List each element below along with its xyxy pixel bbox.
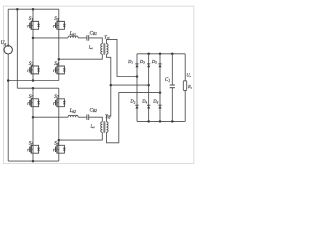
node: bottom bus / leg2 bbox=[147, 120, 150, 123]
node: bottom bus / leg3 bbox=[159, 120, 162, 123]
node: leg2 return tap (bridge2) bbox=[58, 139, 61, 142]
svg-text:S5: S5 bbox=[29, 94, 34, 100]
svg-text:S6: S6 bbox=[29, 141, 34, 147]
svg-text:D6: D6 bbox=[152, 99, 158, 105]
svg-text:S3: S3 bbox=[54, 16, 59, 22]
diode D6 bbox=[158, 105, 161, 108]
wire: output cap leg top bbox=[171, 54, 173, 85]
wire: bridge1 negative rail bbox=[8, 80, 59, 82]
svg-text:Tr2: Tr2 bbox=[105, 114, 111, 120]
resistor Ro (load) bbox=[183, 81, 186, 91]
transformer Tr1 secondary winding bbox=[107, 44, 109, 55]
capacitor C1 bbox=[170, 85, 175, 88]
transistor S6 bbox=[28, 145, 40, 153]
wire: bridge2 positive rail bbox=[17, 87, 59, 89]
capacitor CB2 bbox=[87, 114, 89, 120]
wire: load leg bottom bbox=[184, 90, 186, 121]
transformer Tr2 secondary winding bbox=[107, 122, 109, 133]
wire: parallel feed rail bbox=[16, 9, 18, 88]
node: negative rail / source rail bbox=[7, 79, 10, 82]
wire: bridge2 tap to inductor bbox=[33, 116, 68, 118]
wire: rectifier wire2 bbox=[111, 84, 149, 86]
transformer Tr2 primary winding bbox=[101, 122, 103, 133]
wire: output cap leg bottom bbox=[171, 88, 173, 122]
wire: load leg top bbox=[184, 54, 186, 81]
transistor S5 bbox=[28, 99, 40, 107]
node: top bus / output cap bbox=[171, 53, 174, 56]
wire: rectifier leg3 bbox=[159, 54, 161, 122]
node: leg2 return tap (bridge1) bbox=[58, 58, 61, 61]
wire: middle rail to Tr2 secondary top bbox=[107, 85, 111, 122]
svg-text:S8: S8 bbox=[54, 141, 59, 147]
inductor Lk1 bbox=[68, 36, 78, 38]
wire: rectifier top bus bbox=[137, 53, 185, 55]
diode D5 bbox=[158, 64, 161, 67]
node: top rail / parallel rail bbox=[16, 8, 19, 11]
wire: source negative rail bbox=[7, 54, 9, 161]
wire: CB1 to transformer Tr1 primary top bbox=[89, 38, 103, 44]
transformer Tr1 primary winding bbox=[101, 44, 103, 55]
wire: inductor to capacitor CB2 bbox=[78, 116, 87, 118]
node: wire1 / rectifier leg1 bbox=[136, 75, 139, 78]
transistor S7 bbox=[54, 99, 66, 107]
node: top bus / leg2 bbox=[147, 53, 150, 56]
svg-text:D1: D1 bbox=[127, 59, 133, 65]
wire: CB2 to transformer Tr2 primary top bbox=[89, 117, 103, 122]
transformer Tr1 core bbox=[104, 43, 105, 54]
node: wire2 / rectifier leg2 bbox=[147, 84, 150, 87]
source Ug bbox=[4, 45, 12, 55]
node: bridge2 positive rail / leg1 bbox=[32, 87, 35, 90]
wire: rectifier leg1 bbox=[136, 54, 138, 122]
diode D3 bbox=[147, 64, 150, 67]
svg-text:C1: C1 bbox=[165, 77, 170, 83]
svg-text:D4: D4 bbox=[141, 99, 147, 105]
svg-text:S7: S7 bbox=[54, 94, 59, 100]
node: negative rail / leg1 bbox=[32, 79, 35, 82]
svg-text:S2: S2 bbox=[29, 61, 34, 67]
wire: Tr1 secondary top to rectifier wire1 bbox=[107, 39, 138, 76]
wire: source top to top rail bbox=[7, 9, 9, 45]
transistor S4 bbox=[54, 66, 66, 74]
svg-text:D2: D2 bbox=[129, 99, 135, 105]
node: leg1 midpoint tap (bridge1) bbox=[32, 37, 35, 40]
node: top rail / leg1 bbox=[32, 8, 35, 11]
wire: bridge2 leg2 bbox=[58, 88, 60, 161]
wire: bridge1 tap to inductor bbox=[33, 37, 68, 39]
svg-text:Lk1: Lk1 bbox=[69, 31, 76, 37]
wire: rectifier bottom bus bbox=[137, 120, 185, 122]
capacitor CB1 bbox=[87, 35, 89, 41]
svg-text:S4: S4 bbox=[54, 61, 59, 67]
svg-text:CB2: CB2 bbox=[90, 108, 98, 114]
svg-text:Ug: Ug bbox=[1, 40, 7, 46]
wire: Tr2 primary bottom return to leg2 bbox=[59, 132, 103, 140]
transformer Tr2 core bbox=[104, 121, 105, 132]
node: top bus / leg3 bbox=[159, 53, 162, 56]
inductor Lk2 bbox=[68, 115, 78, 117]
transistor S8 bbox=[54, 145, 66, 153]
transistor S1 bbox=[28, 21, 40, 29]
node: bottom bus / output cap bbox=[171, 120, 174, 123]
svg-text:S1: S1 bbox=[29, 16, 34, 22]
diode D2 bbox=[135, 105, 138, 108]
node: middle rail junction bbox=[110, 84, 113, 87]
wire: bridge1 leg1 bbox=[32, 9, 34, 80]
wire: top input rail bbox=[8, 8, 59, 10]
svg-text:D5: D5 bbox=[151, 59, 157, 65]
node: leg1 midpoint tap (bridge2) bbox=[32, 116, 35, 119]
wire: bottom rail bbox=[8, 160, 59, 162]
diode D1 bbox=[135, 64, 138, 67]
transistor S2 bbox=[28, 66, 40, 74]
node: wire3 / rectifier leg3 bbox=[159, 91, 162, 94]
wire: Tr1 primary bottom return to leg2 bbox=[59, 54, 103, 59]
svg-text:CB1: CB1 bbox=[90, 30, 98, 36]
node: bottom rail / leg1 bbox=[32, 160, 35, 163]
wire: Tr1 secondary bottom to middle rail bbox=[107, 54, 111, 85]
wire: Tr2 secondary bottom to rectifier wire3 bbox=[107, 93, 161, 143]
wire: inductor to capacitor CB1 bbox=[78, 37, 87, 39]
wire: rectifier leg2 bbox=[148, 54, 150, 122]
diode D4 bbox=[147, 105, 150, 108]
svg-text:D3: D3 bbox=[139, 59, 145, 65]
wire: bridge1 leg2 bbox=[58, 9, 60, 80]
transistor S3 bbox=[54, 21, 66, 29]
wire: bridge2 leg1 bbox=[32, 88, 34, 161]
svg-text:Lk2: Lk2 bbox=[69, 108, 76, 114]
